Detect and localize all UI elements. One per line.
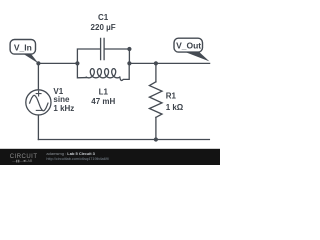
junction node LC right on main wire <box>127 61 131 65</box>
resistor R1 zigzag <box>149 82 162 118</box>
V1 plus sign <box>36 91 41 96</box>
footer bar <box>0 149 220 165</box>
net flag V_In box <box>10 40 35 55</box>
capacitor C1 left plate <box>100 38 102 59</box>
wire main right: LC block right to V_Out end <box>129 62 209 64</box>
V1 minus sign <box>36 109 41 111</box>
junction node at V_In / V1 top <box>36 61 40 65</box>
svg-text:1 kΩ: 1 kΩ <box>166 103 184 112</box>
wire R1 bottom lead <box>155 117 157 139</box>
junction node capacitor right corner <box>127 47 131 51</box>
wire capacitor branch left riser <box>77 49 100 63</box>
svg-text:47 mH: 47 mH <box>91 97 115 106</box>
svg-text:—▮▮—■LAB: —▮▮—■LAB <box>12 159 33 163</box>
capacitor C1 right plate <box>103 38 105 59</box>
net flag V_Out tail <box>184 51 210 61</box>
svg-text:220 µF: 220 µF <box>91 23 116 32</box>
svg-text:adamsmg : Lab 5 Circuit 3: adamsmg : Lab 5 Circuit 3 <box>46 151 95 156</box>
junction node R1 top <box>154 61 158 65</box>
wire V1 bottom lead to ground rail <box>37 115 39 140</box>
svg-text:1 kHz: 1 kHz <box>53 104 74 113</box>
V1 sine waveform symbol <box>30 95 48 110</box>
wire V1 top lead <box>37 63 39 89</box>
svg-text:V_Out: V_Out <box>176 41 201 51</box>
wire R1 top lead <box>155 63 157 81</box>
wire inductor branch left drop <box>77 63 86 77</box>
svg-text:sine: sine <box>53 95 70 104</box>
svg-text:http://circuitlab.com/c6sq4719: http://circuitlab.com/c6sq4719lb4a69/ <box>46 157 110 161</box>
inductor L1 coil <box>86 69 120 78</box>
svg-text:L1: L1 <box>99 87 109 96</box>
net flag V_Out box <box>174 38 203 52</box>
source V1 circle <box>26 90 51 115</box>
wire capacitor branch right riser <box>105 49 130 63</box>
net flag V_In tail <box>22 53 38 63</box>
svg-text:V_In: V_In <box>14 42 32 52</box>
wire ground rail bottom <box>38 139 209 141</box>
wire main left: V_In node to LC block left <box>38 62 77 64</box>
junction node LC left <box>75 61 79 65</box>
junction node R1 bottom on ground rail <box>154 137 158 141</box>
wire inductor branch right: coil end up to main wire <box>120 63 129 80</box>
svg-text:C1: C1 <box>98 13 109 22</box>
svg-text:R1: R1 <box>166 92 177 101</box>
